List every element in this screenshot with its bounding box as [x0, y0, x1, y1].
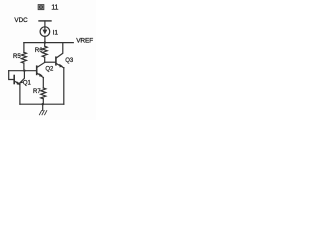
- svg-text:Q3: Q3: [65, 58, 74, 64]
- svg-text:VREF: VREF: [76, 37, 93, 44]
- svg-text:Q1: Q1: [23, 81, 32, 87]
- svg-text:R7: R7: [33, 89, 41, 95]
- svg-text:VDC: VDC: [14, 17, 28, 24]
- svg-text:R6: R6: [35, 48, 43, 54]
- svg-text:I1: I1: [53, 29, 59, 36]
- svg-text:11: 11: [51, 2, 58, 11]
- svg-text:R5: R5: [13, 54, 21, 60]
- svg-text:Q2: Q2: [45, 66, 54, 72]
